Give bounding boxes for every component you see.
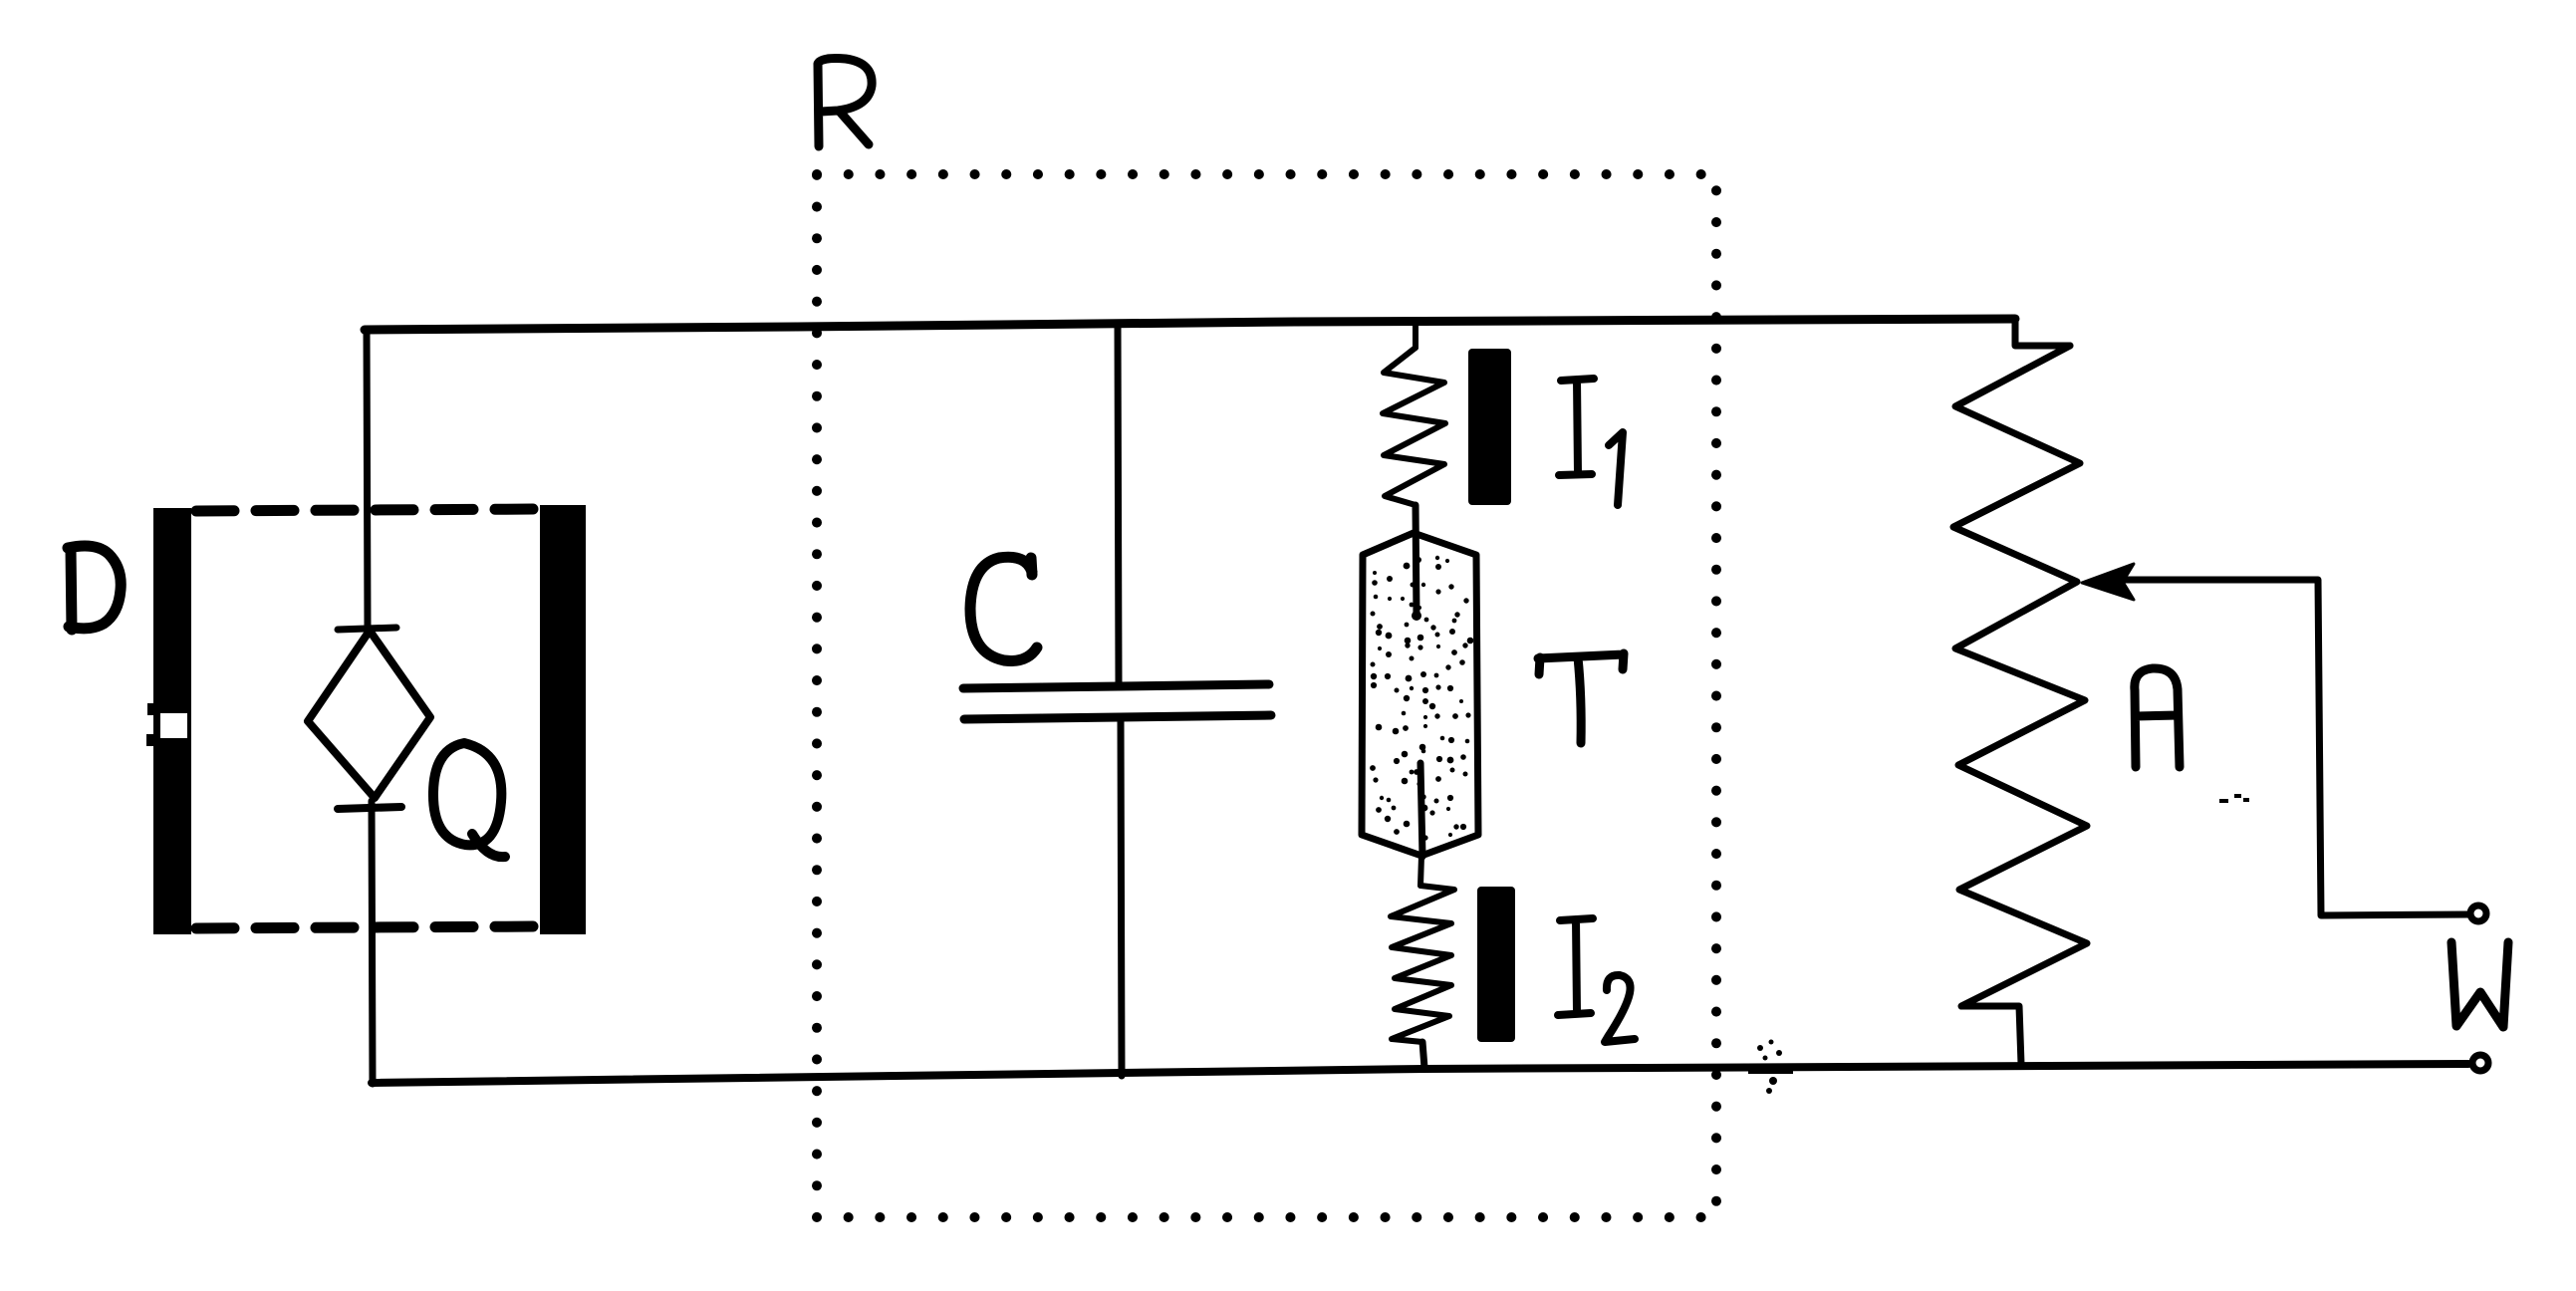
ink smudge near rail: [1748, 1040, 1793, 1095]
resistor I1 zigzag: [1383, 348, 1445, 505]
label D: [68, 546, 121, 630]
label C: [970, 557, 1037, 660]
thermistor T lead bottom: [1420, 763, 1422, 857]
detector box dashed top: [196, 509, 541, 511]
wiper arrowhead: [2082, 564, 2134, 600]
resistor I1 lead: [1413, 321, 1418, 348]
current source Q diamond: [308, 631, 430, 798]
wire left vertical: [367, 329, 373, 1084]
wire bottom rail: [372, 1064, 2468, 1083]
detector box dashed bottom: [196, 926, 541, 928]
resistor I2 zigzag: [1391, 886, 1454, 1042]
resistor I2 bottom lead: [1422, 1042, 1424, 1068]
detector right plate: [540, 505, 586, 934]
capacitor C top plate: [963, 684, 1269, 688]
capacitor C top lead: [1118, 324, 1119, 682]
electrode bar I2: [1477, 887, 1515, 1042]
potentiometer A top step: [2015, 319, 2070, 346]
thermistor T body: [1362, 533, 1478, 856]
wiper arrow shaft: [2114, 580, 2467, 915]
current source Q bottom tick: [338, 807, 401, 809]
label Q: [433, 743, 505, 857]
label T: [1538, 653, 1624, 743]
electrode bar I1: [1468, 349, 1511, 505]
dust specks: [2219, 794, 2249, 803]
potentiometer A zigzag: [1953, 346, 2087, 1064]
capacitor C bottom lead: [1121, 719, 1122, 1076]
terminal W2: [2472, 1055, 2488, 1071]
detector left plate: [146, 508, 191, 934]
resistor I2 lead: [1420, 856, 1421, 886]
label I1: [1559, 379, 1623, 505]
label R: [818, 59, 872, 146]
capacitor C bottom plate: [964, 715, 1271, 719]
terminal W1: [2470, 905, 2486, 921]
thermistor T lead top: [1416, 505, 1417, 616]
current source Q top tick: [338, 628, 396, 630]
dotted box R: [817, 174, 1716, 1217]
thermistor T stipple: [1370, 556, 1473, 841]
label I2: [1558, 918, 1635, 1042]
label W: [2451, 942, 2508, 1027]
label A: [2135, 668, 2180, 767]
wire top rail: [365, 319, 2015, 330]
